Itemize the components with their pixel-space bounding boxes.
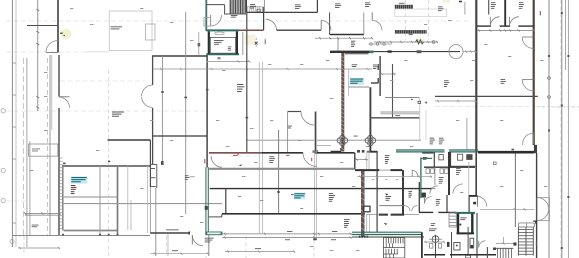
corner dark xyxy=(493,248,496,251)
wall: inner partition xyxy=(29,141,31,235)
hall label 03 xyxy=(237,84,244,92)
vertical x338 xyxy=(337,38,339,51)
wall: bike room top y166 xyxy=(62,165,151,167)
partition x505.2 double xyxy=(504,0,506,26)
wall x487.4 short xyxy=(486,247,488,258)
yellow wash right of elevator xyxy=(245,35,256,45)
dashed axis x47.6 xyxy=(47,58,49,235)
dim ticks y180 xyxy=(372,179,399,181)
dark furniture rect 2 xyxy=(395,30,427,33)
dark cross mark xyxy=(255,42,258,45)
dark line y237 xyxy=(352,236,424,238)
dim text near column xyxy=(354,135,358,138)
wall y165.8 right part xyxy=(451,165,475,167)
wall: main left corridor wall x59 xyxy=(58,55,60,97)
tick marks in hall verticals xyxy=(161,91,164,93)
teal sill block x206-222 xyxy=(205,232,222,236)
texts right rooms xyxy=(373,65,378,70)
label 03 lager xyxy=(329,193,335,202)
labels WC cluster xyxy=(439,177,444,184)
corner box top right of WC xyxy=(494,162,497,165)
red dimension texts xyxy=(204,152,312,164)
teal wall y150.9 xyxy=(396,149,445,151)
door arc off y170 wall xyxy=(412,170,418,177)
big door arc right xyxy=(478,196,487,206)
southwest switchback stair xyxy=(383,238,404,258)
thick partition x449 xyxy=(448,152,450,195)
rotated stair text xyxy=(536,241,537,246)
dim y242 xyxy=(424,241,445,243)
double wall lower line xyxy=(345,53,369,55)
wall x263.6 xyxy=(263,12,265,30)
far right facade verticals xyxy=(548,0,550,258)
vertical x466.9 thin xyxy=(466,118,468,150)
door arc WC 1 xyxy=(490,17,499,26)
bench rounded rect xyxy=(518,223,534,227)
door arc on x533.7 upper xyxy=(522,37,534,49)
bottom-left stair run xyxy=(496,247,513,249)
small room label right xyxy=(423,157,428,160)
door arc corridor 1 xyxy=(321,20,331,30)
green door block xyxy=(370,51,374,54)
long interior line y203.6 xyxy=(63,203,222,205)
wall y170.1 segments xyxy=(355,169,379,171)
door arc in core xyxy=(211,15,222,26)
small box room 10a xyxy=(257,9,261,12)
door recess box xyxy=(204,17,211,26)
texts mid right rooms xyxy=(444,80,449,87)
dim line y209.3 xyxy=(480,208,535,210)
elevator 2 shaft xyxy=(455,212,476,214)
left column extra ticks xyxy=(12,63,16,223)
building south terrain line xyxy=(12,235,150,237)
ticks on facade lines xyxy=(548,12,569,249)
cyan highlight label 1 (bike room) xyxy=(71,176,88,183)
wall: x156 continues to south wall xyxy=(155,188,157,256)
wall: left facade line B xyxy=(15,0,17,247)
door arc corridor west end xyxy=(211,156,222,167)
hatched maroon wall vertical x342.8 xyxy=(341,53,344,152)
wall: y12.4 horizontal xyxy=(246,11,317,13)
small text right of x533.7 xyxy=(540,11,541,15)
door arc right of core xyxy=(266,19,277,30)
mullion foot marks xyxy=(313,238,317,240)
double door arcs into hall at x152.6 xyxy=(142,85,153,96)
maroon wall y30.2 right of core xyxy=(239,29,264,31)
yard dimension lines x222-352 xyxy=(222,233,352,239)
wall: interior line y197 xyxy=(64,196,117,198)
text label in storage box xyxy=(32,149,40,152)
musterflaeche room xyxy=(348,70,350,96)
circles on facade dim x549 xyxy=(548,77,551,80)
wall x370 below xyxy=(369,87,371,151)
window bay box left of core xyxy=(146,24,156,40)
wall: teal left wall of core xyxy=(205,0,207,31)
light rect under furniture xyxy=(395,9,447,17)
dimension line y214 left xyxy=(24,212,61,215)
label 05 room block xyxy=(385,155,390,164)
dim line bottom far-left y248 xyxy=(18,247,60,249)
wall: bike room bottom xyxy=(64,230,117,232)
wall y111.5 with door arc xyxy=(288,111,301,113)
partition x434.9 short xyxy=(434,167,436,185)
label xyxy=(436,199,441,206)
door arc corridor south xyxy=(303,153,317,167)
small dark marks in blob xyxy=(60,33,62,34)
door arc at south opening xyxy=(192,235,203,246)
cyan highlight label 3 xyxy=(294,193,306,200)
interior thin partition x185.7 xyxy=(185,12,187,214)
teal vertical band x206-208.6 xyxy=(205,167,207,235)
wall: x246.3 top xyxy=(245,0,247,12)
dimension line y38 xyxy=(315,37,373,39)
wall y151.5 segments xyxy=(331,151,342,153)
wall: y140 horizontal xyxy=(108,139,151,141)
double door circle on y51.6 wall xyxy=(449,45,463,59)
text Treppenhaus xyxy=(231,15,238,18)
fixtures row under teal wall xyxy=(439,155,443,160)
door arc on x59 wall xyxy=(59,97,70,108)
dim y74 right xyxy=(379,73,397,75)
door arc WC 2 xyxy=(510,17,519,26)
dark box on teal xyxy=(422,193,426,198)
ramp treads between x59.7 and x62.6 xyxy=(60,158,63,228)
wall y195.9 top xyxy=(469,195,478,197)
WC rooms top: wall y26.1 xyxy=(477,25,491,27)
storage box room left xyxy=(29,144,58,156)
column clover 1 xyxy=(337,135,348,146)
wall: x152.6 vertical xyxy=(152,56,154,85)
tick on wall xyxy=(277,191,279,193)
label at south door xyxy=(205,238,214,243)
dark furniture rect 1 xyxy=(395,5,413,9)
sink boxes under y167.2 xyxy=(426,169,430,174)
wall y30.2 continues xyxy=(277,29,322,31)
ramp wall x62.8 xyxy=(62,166,64,231)
arrow marker in room 04 yard xyxy=(384,223,388,225)
label 04 with arrow xyxy=(385,193,389,195)
tick above wall start xyxy=(63,163,66,165)
wall: x162.4 short xyxy=(161,56,163,165)
hatch dashes on it xyxy=(359,236,368,238)
WC cluster walls below teal xyxy=(433,152,435,167)
wall x419.3 xyxy=(418,182,420,212)
stair end cap xyxy=(263,7,265,13)
WC fixtures bottom xyxy=(432,236,439,243)
bottom wall y254.7 xyxy=(424,254,445,256)
wall: left inner dashed line xyxy=(23,58,25,235)
wall x207.1 hall right xyxy=(206,55,208,167)
wall y96.4 mid right xyxy=(435,95,538,97)
ticks on teal wall xyxy=(512,149,515,151)
teal band south x352-421 xyxy=(352,231,421,233)
wall: x58 vertical top xyxy=(57,0,59,53)
wall x377.1 xyxy=(376,151,378,232)
wall corner y152.9 right xyxy=(422,152,433,154)
washbasin D xyxy=(454,243,460,251)
hall vertical x278.6 xyxy=(278,130,280,214)
small label right of x278 wall xyxy=(291,193,294,196)
teal vertical x420.9 xyxy=(420,158,422,199)
hinge mark on teal band xyxy=(205,206,208,210)
label texts left xyxy=(431,223,436,226)
grid: faint horizontal axis lines xyxy=(6,21,579,201)
wall: core top inner xyxy=(206,4,224,6)
wall y212.4 xyxy=(419,211,433,213)
stair block bottom line y14 xyxy=(225,13,246,15)
wall y51.8 continues thin to x460 xyxy=(374,51,461,53)
wall y83 right xyxy=(371,82,379,84)
room 08 text xyxy=(438,6,443,11)
hall label Gastronomie xyxy=(112,112,124,117)
door arcs WC cluster bottom xyxy=(430,186,438,194)
dim line bottom left y253.7 xyxy=(151,253,210,255)
elevator shaft xyxy=(206,29,239,31)
dim line under core y61.5 xyxy=(206,60,251,62)
wall: left facade line A xyxy=(11,0,13,247)
text block corridor xyxy=(351,41,355,47)
double door entrance box xyxy=(537,198,549,221)
thick vertical x476.3 xyxy=(475,0,477,153)
texts rooms above corridor xyxy=(250,4,256,9)
text label top-left room xyxy=(111,26,123,29)
teal horizontal y158.4 xyxy=(421,157,432,159)
thick vertical x533.7 xyxy=(533,0,535,145)
faint dash right xyxy=(537,106,579,108)
wall: partition x50 xyxy=(49,55,51,235)
hall vertical x246.8 xyxy=(246,12,248,152)
wall: y56 horizontal xyxy=(152,55,207,57)
elevator oval xyxy=(215,32,225,35)
label 05 room xyxy=(185,175,190,179)
mid-right room block walls xyxy=(392,64,394,118)
wall y136 center xyxy=(153,135,208,137)
door frame marks on corridor wall xyxy=(312,151,316,153)
skylight rectangle outline xyxy=(109,11,152,51)
door arc x533 mid2 xyxy=(523,133,534,144)
dark cap x534-537 xyxy=(534,145,537,153)
vertical gray x242.8 xyxy=(242,32,244,55)
yellow wash on dim line xyxy=(417,39,424,43)
dim line y30.4 xyxy=(477,29,535,31)
wall: x150.4 vertical xyxy=(149,140,151,187)
small arrow marker xyxy=(239,164,243,166)
corner L mark xyxy=(533,221,536,224)
wall y188.6 long xyxy=(210,188,432,190)
steps block left of hall xyxy=(150,164,156,188)
dim between walls xyxy=(355,158,368,160)
elevator text xyxy=(214,40,224,45)
thick dark wall y152.2 right xyxy=(478,151,534,154)
door arc on x533.7 mid xyxy=(522,80,534,92)
ladder strip left of elevator2 xyxy=(449,213,456,227)
dimension line y176.7 xyxy=(357,176,432,178)
corridor label xyxy=(269,156,275,163)
stair hatched block top xyxy=(230,0,246,14)
thick wall y51.8 xyxy=(330,51,370,53)
maroon tint overlay xyxy=(209,152,262,154)
wall y213.8 xyxy=(222,213,365,215)
dimension line y42 with break symbol xyxy=(374,41,438,43)
wall x536.6 vertical xyxy=(536,153,538,258)
faint line continuation xyxy=(85,51,109,53)
grid bubbles left edge xyxy=(1,109,14,244)
column clover 2 xyxy=(365,135,376,146)
vertical x476.2 lower xyxy=(475,153,477,196)
texts above teal wall xyxy=(430,138,435,145)
dim line bottom y251.5 xyxy=(225,250,295,252)
wall y51.6 right ticks xyxy=(463,50,477,52)
dimension line y69 across hall xyxy=(153,68,372,70)
hatched wall x361-364.5 xyxy=(361,170,365,236)
dimension line vertical with ticks xyxy=(36,0,39,111)
verticals in block xyxy=(451,232,453,258)
big stair right xyxy=(518,227,533,256)
text Muellplatz xyxy=(32,225,39,228)
corridor bottom wall gray xyxy=(209,168,355,170)
dark door jamb xyxy=(447,242,450,247)
wall y167.2 xyxy=(424,166,475,168)
ticks on terrain line xyxy=(62,234,119,236)
door arc far right xyxy=(479,241,486,248)
wall x317.4 xyxy=(316,0,318,12)
wall: bike room inner x100 xyxy=(99,166,101,236)
wall x225.8 xyxy=(225,189,227,214)
wall: inner x127.8 xyxy=(127,166,129,230)
small door arc right of core xyxy=(264,39,267,45)
dark pillar box at x364-370 xyxy=(364,206,370,212)
wall x421.9 south xyxy=(421,232,423,258)
label south yard text xyxy=(344,219,350,228)
WC labels xyxy=(491,2,496,9)
door arc corridor 2 xyxy=(372,20,382,30)
door symbol circles row y44 xyxy=(369,43,393,45)
niche lines left xyxy=(209,216,222,218)
wall y214.4 segments right xyxy=(367,213,378,215)
vertical x515.4 xyxy=(514,154,516,228)
stair flight right lighter xyxy=(246,7,263,13)
wall: left inner line xyxy=(26,58,28,247)
wall x447 xyxy=(446,195,448,212)
two small door arcs on y205.6 xyxy=(405,206,410,211)
WC pan right xyxy=(470,238,474,248)
dim ticks y101 xyxy=(435,100,477,102)
wall: y25.5 horizontal xyxy=(27,25,58,27)
cyan highlight label 2 (Musterflaeche) xyxy=(350,78,364,85)
axis line y140 xyxy=(247,139,421,141)
wall: partition x51.8 xyxy=(51,55,53,130)
wall: bike room right x117.5 xyxy=(117,166,119,236)
wall: right end of upper stair x264 xyxy=(263,0,265,12)
dim y243.5 xyxy=(496,237,515,245)
partition x488.7 xyxy=(488,0,490,15)
door arc at x58 bottom xyxy=(46,41,58,53)
wc pans xyxy=(430,244,433,249)
white box on bottom wall xyxy=(466,255,471,258)
wall y205.6 inner xyxy=(379,205,404,207)
room Buero walls xyxy=(329,12,331,34)
wall x403 thick xyxy=(402,170,404,214)
left guide lines of core xyxy=(198,32,200,55)
corridor top wall dark xyxy=(209,152,303,154)
south wall segment x150-189 xyxy=(150,232,189,234)
dark room label under cyan 1 xyxy=(71,185,77,194)
yellow highlight blob xyxy=(61,29,71,39)
door arc small left xyxy=(425,197,432,204)
diamond marker top right xyxy=(459,1,462,3)
elevator 2 label xyxy=(460,217,466,220)
vertical x468.8 thin xyxy=(468,162,470,195)
